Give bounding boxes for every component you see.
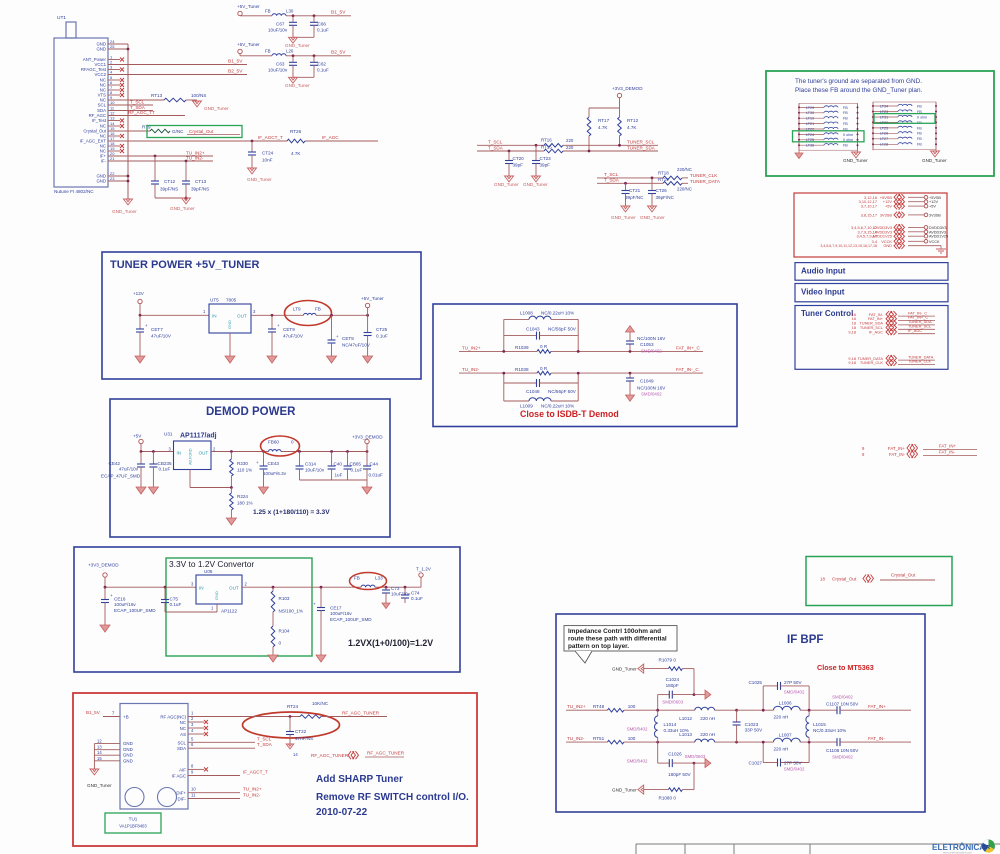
ground at CET8 — [327, 356, 337, 363]
capacitor CE16 100uF/16v — [104, 587, 106, 599]
svg-text:220: 220 — [566, 138, 574, 143]
svg-text:CT26: CT26 — [656, 188, 668, 193]
svg-text:0 R: 0 R — [540, 344, 548, 349]
svg-text:T_SDA: T_SDA — [488, 146, 504, 151]
svg-text:TUNER_SDA: TUNER_SDA — [627, 146, 656, 151]
svg-text:GND_Tuner: GND_Tuner — [170, 206, 195, 211]
blue box Audio Input — [795, 263, 948, 281]
svg-text:IF_AGC: IF_AGC — [908, 328, 922, 333]
svg-text:IF-: IF- — [101, 159, 107, 164]
wire net T_SCL to TUNER_SCL — [477, 144, 544, 146]
svg-text:CE42: CE42 — [109, 461, 121, 466]
svg-text:220 nH: 220 nH — [700, 732, 715, 737]
svg-text:NC/0.22uH 10%: NC/0.22uH 10% — [541, 311, 574, 316]
capacitor C63 10uF/10v — [292, 56, 294, 62]
svg-text:CB235: CB235 — [158, 461, 172, 466]
ferrite bead LT25 FB — [873, 127, 898, 129]
svg-text:FAT_IN-_C: FAT_IN-_C — [676, 367, 699, 372]
svg-text:RT15: RT15 — [541, 145, 552, 150]
svg-text:FB: FB — [843, 111, 848, 115]
svg-text:RF_AGC_TUNER: RF_AGC_TUNER — [342, 711, 380, 716]
svg-text:C67: C67 — [276, 21, 285, 26]
svg-text:FB: FB — [843, 122, 848, 126]
svg-text:TU_IN2-: TU_IN2- — [243, 793, 261, 798]
svg-text:39pF/NS: 39pF/NS — [160, 187, 178, 192]
ferrite bead LT32 FB — [873, 121, 898, 123]
svg-text:LT25: LT25 — [880, 126, 888, 130]
svg-text:Tuner Control: Tuner Control — [801, 309, 853, 318]
svg-text:T_SCL: T_SCL — [130, 100, 145, 105]
svg-text:+: + — [145, 323, 148, 328]
callout impedance note — [564, 626, 677, 651]
svg-text:CT23: CT23 — [540, 156, 552, 161]
svg-text:10uF/10v: 10uF/10v — [305, 468, 325, 473]
green inner box convertor — [166, 558, 312, 656]
svg-text:GND: GND — [227, 320, 232, 329]
svg-text:C66: C66 — [318, 21, 327, 26]
svg-text:3V3SB: 3V3SB — [880, 212, 893, 217]
svg-text:L30: L30 — [286, 8, 294, 13]
svg-text:GND: GND — [123, 758, 133, 763]
svg-text:LT24: LT24 — [806, 133, 814, 137]
svg-text:LT26: LT26 — [880, 132, 888, 136]
svg-text:+3V3_DEMOD: +3V3_DEMOD — [612, 86, 643, 91]
svg-text:Crystal_Out: Crystal_Out — [891, 573, 916, 578]
regulator U31 AP1117/adj — [174, 441, 212, 470]
svg-text:+12V: +12V — [929, 200, 938, 204]
capacitor C1027 27P 50V — [762, 742, 764, 762]
svg-text:+: + — [256, 460, 259, 465]
svg-text:10: 10 — [191, 787, 196, 792]
svg-text:18: 18 — [820, 577, 825, 582]
wire isdbt loop1 verticals — [503, 319, 505, 351]
svg-text:RT19: RT19 — [658, 177, 669, 182]
svg-text:0.01uF: 0.01uF — [369, 473, 383, 478]
wire tuner gnd bus — [93, 744, 95, 769]
svg-text:C1043: C1043 — [526, 327, 540, 332]
wire bpf mid to right — [737, 709, 774, 711]
red power box — [794, 193, 947, 257]
svg-text:110 1%: 110 1% — [237, 468, 252, 473]
svg-text:0.1uF: 0.1uF — [376, 334, 388, 339]
capacitor C1025 27P 50V — [762, 686, 764, 710]
svg-text:SMD/0603: SMD/0603 — [685, 754, 706, 759]
resistor R1038 0 R — [537, 371, 551, 375]
svg-text:4.7K: 4.7K — [291, 151, 301, 156]
ground GND_Tuner at CT24 — [248, 168, 257, 174]
power arrow right C1024 — [694, 694, 705, 696]
svg-text:GND_Tuner: GND_Tuner — [247, 177, 272, 182]
svg-text:0: 0 — [291, 440, 294, 445]
svg-text:C1026: C1026 — [668, 752, 682, 757]
svg-text:R1080 0: R1080 0 — [659, 796, 677, 801]
svg-text:IF_Test: IF_Test — [92, 118, 107, 123]
resistor RT17 4.7K — [588, 108, 590, 117]
wire net TU_IN2- isdbt — [459, 372, 537, 374]
svg-text:RT48: RT48 — [593, 704, 605, 709]
svg-text:33P 50V: 33P 50V — [745, 727, 763, 732]
svg-text:AIF: AIF — [179, 767, 186, 772]
svg-text:DVDD3V3: DVDD3V3 — [929, 226, 947, 230]
wire cap ground join — [293, 36, 314, 38]
ground at CT22 — [286, 744, 294, 749]
svg-text:220/NC: 220/NC — [677, 187, 692, 192]
svg-text:+5V_Tuner: +5V_Tuner — [237, 4, 260, 9]
svg-text:C74: C74 — [411, 591, 420, 596]
capacitor CE17 100uF/16v — [320, 586, 323, 589]
svg-text:UT5: UT5 — [210, 298, 219, 303]
svg-text:+: + — [277, 323, 280, 328]
regulator U05 AP1122 — [196, 575, 242, 604]
svg-text:+5V: +5V — [885, 204, 892, 209]
svg-text:ECAP_47UF_SMD: ECAP_47UF_SMD — [101, 474, 141, 479]
svg-text:220/NC: 220/NC — [677, 167, 692, 172]
svg-text:NC/56pF 50V: NC/56pF 50V — [548, 327, 577, 332]
capacitor C75 0.1uF — [164, 587, 166, 599]
svg-text:GND_Tuner: GND_Tuner — [612, 788, 637, 793]
svg-text:SCL: SCL — [177, 740, 186, 745]
blue box 3.3V to 1.2V — [74, 547, 460, 672]
svg-text:10uF/10v: 10uF/10v — [268, 67, 288, 72]
svg-text:L1015: L1015 — [813, 722, 826, 727]
svg-text:GND_Tuner: GND_Tuner — [494, 182, 519, 187]
ground at CE43 — [259, 487, 269, 494]
ground at CET7 — [135, 356, 145, 363]
svg-text:R230: R230 — [237, 461, 248, 466]
blue box DEMOD POWER — [110, 399, 390, 537]
svg-text:CB65: CB65 — [350, 462, 362, 467]
svg-text:14: 14 — [293, 752, 298, 757]
resistor RT13 100/NS on pin 9 — [108, 99, 164, 101]
ground demod caps — [362, 487, 372, 494]
svg-text:Crystal_Out: Crystal_Out — [189, 129, 214, 134]
capacitor CB235 0.1uF — [152, 452, 154, 465]
svg-text:220: 220 — [566, 145, 574, 150]
svg-text:TUNER_CLK: TUNER_CLK — [690, 173, 718, 178]
ferrite bead LT23 FB — [873, 111, 898, 113]
svg-text:LT36: LT36 — [806, 144, 814, 148]
svg-text:DIF-: DIF- — [177, 797, 186, 802]
svg-text:GND_Tuner: GND_Tuner — [112, 209, 137, 214]
svg-text:C73: C73 — [391, 586, 400, 591]
svg-text:CT21: CT21 — [629, 188, 641, 193]
svg-text:13: 13 — [110, 116, 115, 121]
wire net TU_IN2- from pin 21 — [108, 160, 213, 162]
svg-text:FB: FB — [354, 576, 360, 581]
wire R1079 to C1024 node — [693, 669, 695, 695]
svg-text:VCC2: VCC2 — [95, 72, 107, 77]
svg-text:T_SDA: T_SDA — [604, 178, 620, 183]
svg-text:GND: GND — [214, 591, 219, 600]
svg-text:L1014: L1014 — [664, 722, 677, 727]
wire +12V rail — [140, 314, 209, 316]
svg-text:FAT_IN-: FAT_IN- — [939, 450, 956, 455]
wire net TU_IN2+ from pin 20 — [108, 155, 213, 157]
tuner TU1 body — [120, 704, 188, 810]
ground at CE16 — [100, 625, 110, 632]
svg-text:L1007: L1007 — [779, 732, 792, 737]
svg-text:www.eletronicabr.com: www.eletronicabr.com — [943, 851, 973, 854]
tuner RF circle 2 — [158, 788, 177, 807]
svg-text:220 nH: 220 nH — [700, 716, 715, 721]
svg-text:LT30: LT30 — [806, 111, 814, 115]
svg-text:LT29: LT29 — [806, 106, 814, 110]
svg-text:CT13: CT13 — [195, 179, 207, 184]
svg-text:TU_IN2+: TU_IN2+ — [243, 787, 262, 792]
svg-text:0.1uF: 0.1uF — [351, 468, 363, 473]
svg-text:+B: +B — [123, 715, 129, 720]
svg-text:NC/0.33uH 10%: NC/0.33uH 10% — [813, 728, 846, 733]
svg-text:T_1.2V: T_1.2V — [416, 567, 432, 572]
svg-text:0.1uF: 0.1uF — [170, 602, 182, 607]
svg-text:T_SCL: T_SCL — [488, 139, 503, 144]
svg-text:CE16: CE16 — [114, 597, 126, 602]
svg-text:15: 15 — [97, 756, 102, 761]
svg-text:+: + — [313, 602, 316, 607]
svg-text:C1025: C1025 — [748, 680, 762, 685]
svg-text:CE17: CE17 — [330, 606, 342, 611]
svg-text:3V3SB: 3V3SB — [929, 213, 941, 217]
blue box Video Input — [795, 284, 948, 302]
svg-text:C75: C75 — [170, 597, 179, 602]
resistor R1080 0 — [693, 763, 695, 790]
inductor L1008 NC/0.22uH 10% — [504, 318, 529, 320]
resistor R1039 0 R — [537, 350, 551, 354]
blue box TUNER POWER — [102, 252, 421, 379]
svg-text:SMD/0402: SMD/0402 — [627, 758, 648, 763]
svg-text:+5V_Tuner: +5V_Tuner — [237, 42, 260, 47]
svg-text:TU_IN2-: TU_IN2- — [567, 736, 585, 741]
svg-text:RT16: RT16 — [541, 138, 552, 143]
ground pink left group — [798, 151, 800, 153]
svg-text:180pF 50V: 180pF 50V — [668, 772, 691, 777]
svg-text:IF_AGCT_T: IF_AGCT_T — [243, 770, 268, 775]
svg-text:11: 11 — [191, 793, 196, 798]
svg-text:+5VSB: +5VSB — [929, 196, 941, 200]
svg-text:4.7K: 4.7K — [598, 125, 608, 130]
regulator UT5 7805 — [209, 304, 251, 333]
inductor L1006 220 nH — [774, 706, 801, 710]
ground at R224 — [226, 518, 236, 525]
wire net T_SCL pin 10 — [108, 104, 153, 106]
ferrite bead LT24 0 ohm — [799, 133, 824, 135]
svg-text:47uF/10V: 47uF/10V — [151, 334, 172, 339]
svg-text:0.1uF: 0.1uF — [411, 596, 423, 601]
svg-text:GND_Tuner: GND_Tuner — [640, 215, 665, 220]
svg-text:100: 100 — [628, 736, 636, 741]
svg-text:TUNER_CLK: TUNER_CLK — [908, 359, 932, 364]
svg-text:CE43: CE43 — [268, 461, 280, 466]
capacitor CT13 39pF/NS — [185, 161, 187, 181]
svg-text:21: 21 — [110, 156, 115, 161]
svg-text:RT18: RT18 — [658, 171, 669, 176]
svg-text:IN: IN — [177, 451, 182, 456]
ferrite bead LT29 FB — [799, 106, 824, 108]
svg-text:FB: FB — [917, 126, 922, 130]
wire 3v3 rail — [105, 586, 196, 588]
svg-text:C1107 10N 50V: C1107 10N 50V — [826, 702, 859, 707]
svg-text:FAT_IN+: FAT_IN+ — [868, 704, 886, 709]
power arrow right C1026 — [694, 762, 705, 764]
svg-text:SDA: SDA — [177, 746, 186, 751]
blue box Tuner Control — [795, 306, 948, 370]
wire cap bottoms join demod — [300, 479, 368, 481]
svg-text:Add SHARP Tuner: Add SHARP Tuner — [316, 774, 403, 785]
capacitor C1023 33P 50V — [735, 709, 738, 712]
svg-text:LT21: LT21 — [806, 122, 814, 126]
inductor L1009 NC/0.22uH 10% — [504, 400, 529, 402]
inductor L26 FB — [272, 54, 286, 56]
svg-text:SMD/0402: SMD/0402 — [641, 349, 662, 354]
svg-text:RT24: RT24 — [287, 704, 299, 709]
resistor R103 NS/100_1% — [272, 587, 274, 591]
wire U05 gnd leg — [216, 604, 218, 612]
svg-text:ADJ/GND: ADJ/GND — [189, 448, 193, 465]
svg-text:C40: C40 — [334, 462, 343, 467]
svg-text:GND_Tuner: GND_Tuner — [922, 158, 947, 163]
svg-text:DEMOD POWER: DEMOD POWER — [206, 406, 296, 418]
capacitor C1053 NC/100N 16V — [629, 350, 632, 353]
svg-text:R104: R104 — [279, 629, 290, 634]
svg-text:220 nH: 220 nH — [774, 715, 789, 720]
svg-text:100uF/16v: 100uF/16v — [330, 611, 352, 616]
svg-text:T_SCL: T_SCL — [604, 172, 619, 177]
svg-text:NC: NC — [180, 720, 186, 725]
svg-text:T_SDA: T_SDA — [257, 742, 273, 747]
svg-text:TU1: TU1 — [129, 817, 138, 822]
inductor L33 FB with red ellipse — [350, 573, 387, 590]
ground GND_Tuner at RT13 — [193, 101, 202, 107]
wire +5V rail demod — [141, 451, 174, 453]
svg-text:GND: GND — [123, 741, 133, 746]
blue box IF BPF — [556, 614, 925, 812]
svg-text:27P 50V: 27P 50V — [784, 680, 802, 685]
svg-text:pattern on top layer.: pattern on top layer. — [568, 643, 629, 650]
ferrite bead LT27 FB — [873, 138, 898, 140]
svg-text:BR: BR — [982, 845, 990, 851]
svg-text:1uF: 1uF — [335, 473, 343, 478]
svg-text:SMD/0402: SMD/0402 — [832, 694, 853, 699]
svg-text:Impedance Contrl 100ohm and: Impedance Contrl 100ohm and — [568, 628, 661, 635]
svg-text:180 1%: 180 1% — [237, 501, 253, 506]
svg-text:B2_5V: B2_5V — [331, 49, 346, 55]
svg-text:C1027: C1027 — [748, 761, 762, 766]
svg-text:FB: FB — [843, 144, 848, 148]
svg-text:LT19: LT19 — [806, 117, 814, 121]
svg-text:DIF+: DIF+ — [176, 791, 186, 796]
inductor LT9 FB with red ellipse — [285, 301, 332, 326]
svg-text:NC/47uF/10V: NC/47uF/10V — [342, 343, 371, 348]
svg-text:25: 25 — [110, 44, 115, 49]
ground at R104 — [268, 655, 278, 662]
svg-text:IN: IN — [212, 314, 217, 319]
svg-text:NC: NC — [180, 726, 186, 731]
svg-text:FAT_IN+_C: FAT_IN+_C — [676, 345, 700, 350]
green box Crystal_Out offpage — [806, 557, 952, 606]
svg-text:B1_5V: B1_5V — [331, 9, 346, 15]
svg-text:GND_Tuner: GND_Tuner — [285, 43, 310, 48]
svg-text:GND_Tuner: GND_Tuner — [87, 783, 112, 788]
svg-text:GND: GND — [883, 243, 892, 248]
svg-text:C1023: C1023 — [745, 722, 759, 727]
svg-text:Video Input: Video Input — [801, 288, 845, 297]
svg-text:Audio Input: Audio Input — [801, 267, 846, 276]
svg-text:SMD/0603: SMD/0603 — [662, 699, 683, 704]
svg-text:UT1: UT1 — [57, 15, 66, 21]
svg-text:GND_Tuner: GND_Tuner — [843, 158, 868, 163]
capacitor C73 10uF/10v — [385, 586, 388, 589]
wire net TU_IN2+ bpf — [566, 709, 607, 711]
svg-text:GND: GND — [123, 753, 133, 758]
wire net TU_IN2- bpf — [566, 741, 607, 743]
svg-text:Nutune FI 4802/NC: Nutune FI 4802/NC — [54, 189, 94, 194]
svg-text:C1108 10N 50V: C1108 10N 50V — [826, 748, 859, 753]
svg-text:G/NC: G/NC — [172, 129, 184, 134]
svg-text:TUNER POWER +5V_TUNER: TUNER POWER +5V_TUNER — [110, 259, 259, 271]
ferrite bead LT19 FB — [799, 117, 824, 119]
ground arrow at C1049 — [626, 395, 635, 401]
wire net RF_AGC_TT pin 12 — [108, 115, 185, 117]
capacitor C1108 10N 50V — [836, 738, 838, 746]
svg-text:SMD/0402: SMD/0402 — [641, 392, 662, 397]
capacitor C74 0.1uF — [404, 586, 407, 589]
svg-text:2010-07-22: 2010-07-22 — [316, 807, 368, 818]
wire net TU_IN2+ isdbt — [459, 350, 537, 352]
svg-text:C62: C62 — [318, 61, 327, 66]
capacitor CET8 NC/47uF/10V — [331, 315, 333, 340]
svg-text:C63: C63 — [276, 61, 285, 66]
wire net T_SCL second set — [597, 177, 663, 179]
ground at CE42 — [136, 487, 146, 494]
svg-text:LT34: LT34 — [880, 104, 888, 108]
svg-text:RF AGC(NC): RF AGC(NC) — [160, 715, 186, 720]
FB group right — [873, 102, 936, 149]
resistor RT16 220 — [544, 144, 563, 148]
svg-text:TU_IN2-: TU_IN2- — [186, 156, 204, 161]
svg-text:47uF/10v: 47uF/10v — [119, 467, 139, 472]
svg-text:FAT_IN+: FAT_IN+ — [888, 446, 906, 451]
svg-text:GND: GND — [96, 179, 106, 184]
svg-text:3,4: 3,4 — [872, 239, 878, 244]
svg-text:0 ohm: 0 ohm — [917, 115, 927, 119]
svg-text:Close to MT5363: Close to MT5363 — [817, 663, 874, 672]
wire +5V rail 1 — [240, 15, 272, 17]
ground GND_Tuner at CT12/CT13 — [182, 198, 191, 204]
capacitor CT22 47nF/NS — [289, 717, 291, 732]
svg-text:IF AGC: IF AGC — [172, 774, 186, 779]
svg-text:C314: C314 — [305, 462, 316, 467]
capacitor CT21 39pF/NC — [625, 183, 627, 190]
svg-text:CT25: CT25 — [376, 327, 388, 332]
wire U31 out rail — [211, 451, 269, 453]
capacitor C1049 NC/100N 16V — [629, 372, 632, 375]
red box SHARP tuner — [73, 693, 477, 846]
svg-text:0.1uF: 0.1uF — [159, 467, 171, 472]
svg-text:LT28: LT28 — [880, 143, 888, 147]
svg-text:3,8,15,17: 3,8,15,17 — [861, 212, 877, 217]
svg-text:TU_IN2+: TU_IN2+ — [462, 345, 481, 350]
wire net B2_5V from pin 4 — [108, 74, 247, 76]
svg-text:IF_AGC: IF_AGC — [869, 329, 883, 334]
svg-text:GND_Tuner: GND_Tuner — [611, 215, 636, 220]
svg-text:SMD/0402: SMD/0402 — [784, 767, 805, 772]
capacitor CT25 0.1uF — [366, 314, 369, 317]
wire cap ground join — [293, 76, 314, 78]
resistor R104 0 — [271, 626, 275, 647]
ground GND_Tuner at CT23 — [532, 176, 541, 182]
svg-text:FAT_IN-: FAT_IN- — [868, 736, 885, 741]
wire U05 out rail — [242, 586, 361, 588]
